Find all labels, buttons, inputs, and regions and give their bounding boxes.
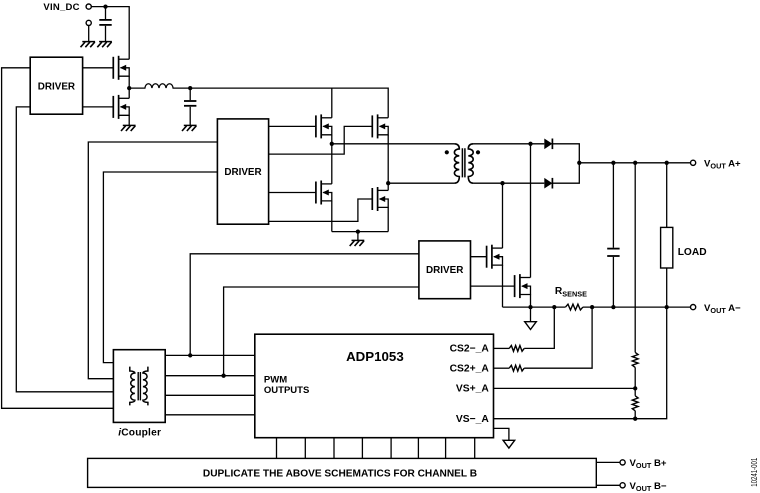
iCoupler transformer core <box>138 372 140 400</box>
junction secondary top <box>528 142 532 146</box>
wire A- rail right <box>583 306 691 308</box>
wire bridge bottom rail <box>332 231 388 233</box>
svg-text:DRIVER: DRIVER <box>426 265 463 276</box>
wire VS- to ADP <box>494 418 636 420</box>
junction VS divider top <box>633 161 637 165</box>
resistor RSENSE <box>566 304 583 310</box>
wire PWM2 iCoupler to ADP <box>165 375 255 377</box>
transistor M4 <box>372 114 388 138</box>
wire U1 upper input to iCoupler <box>2 68 114 409</box>
wire rail to ground <box>357 232 359 240</box>
channel B box <box>88 458 597 487</box>
iCoupler transformer left winding <box>130 367 135 406</box>
svg-text:LOAD: LOAD <box>678 247 707 258</box>
ground below Q2 <box>121 125 136 131</box>
wire VS- to A- rail <box>635 307 667 419</box>
wire R3 to VS+ node <box>634 367 636 395</box>
junction C4 top <box>611 161 615 165</box>
wire U2 to M6 gate <box>269 199 373 221</box>
transistor M6 <box>372 187 388 211</box>
wire M8 source to A- rail <box>530 295 532 308</box>
junction VIN/C1 <box>103 4 107 8</box>
ground below bridge <box>350 240 365 246</box>
wire U2 to M5 gate <box>269 192 316 194</box>
iCoupler transformer right winding <box>143 367 148 406</box>
wire U2 lower input to iCoupler <box>103 172 217 363</box>
transistor Q2 <box>113 95 129 119</box>
svg-text:DUPLICATE THE ABOVE SCHEMATICS: DUPLICATE THE ABOVE SCHEMATICS FOR CHANN… <box>203 469 477 480</box>
wire CS2- tap down <box>524 307 554 348</box>
wire terminal to ground <box>88 26 90 42</box>
wire load top lead <box>666 163 668 228</box>
capacitor C2 leads <box>189 88 191 125</box>
wire A- rail left <box>503 306 566 308</box>
wire U2 to M3 gate <box>269 125 316 127</box>
wire node B to primary <box>388 182 454 184</box>
capacitor C1 <box>99 20 111 25</box>
wire U1 to Q2 gate <box>83 106 114 108</box>
terminal VOUT B+ <box>620 460 625 465</box>
wire load bottom lead <box>666 268 668 307</box>
transistor M5 <box>316 181 332 205</box>
wire A+ to divider <box>634 163 636 353</box>
capacitor C2 <box>184 101 196 106</box>
wire D2 to output junction <box>552 163 579 183</box>
wire CS2+ tap down <box>524 307 592 368</box>
svg-text:VS+_A: VS+_A <box>456 384 489 395</box>
wire A+ rail <box>579 162 690 164</box>
wire M5 source to bottom rail <box>331 201 333 232</box>
wire PWM2 riser to U3 <box>224 287 419 376</box>
wire D1 to output junction <box>552 144 579 163</box>
wire secondary top <box>473 143 544 145</box>
junction VS- <box>633 417 637 421</box>
terminal VIN_DC <box>86 4 91 9</box>
junction secondary bottom <box>500 181 504 185</box>
svg-text:CS2+_A: CS2+_A <box>450 363 490 374</box>
T1 secondary phase dot <box>476 150 480 154</box>
T1 primary phase dot <box>445 150 449 154</box>
resistor R1 CS2- <box>509 346 524 352</box>
signal ground ADP1053 <box>503 440 515 448</box>
capacitor C1 leads <box>105 7 107 42</box>
driver U2 box <box>217 119 268 224</box>
wire PWM1 iCoupler to ADP <box>165 354 255 356</box>
wire ADP ground <box>494 428 509 440</box>
wire M3 drain tap <box>331 88 333 118</box>
wire M3 source / M5 drain <box>331 135 333 184</box>
junction load top <box>665 161 669 165</box>
ground below C2 <box>182 125 197 131</box>
diode D2 <box>544 178 552 189</box>
wire U1 to Q1 gate <box>83 67 114 69</box>
junction CS2- tap <box>552 305 556 309</box>
svg-text:VS−_A: VS−_A <box>456 414 489 425</box>
transformer T1 core <box>462 148 465 177</box>
junction PWM2 riser <box>221 374 225 378</box>
wire PWM3 iCoupler to ADP <box>165 394 255 396</box>
wire M4 source / M6 drain <box>387 135 389 191</box>
wire secondary bottom <box>473 182 544 184</box>
transformer T1 secondary winding <box>468 144 473 183</box>
driver U1 box <box>30 57 82 114</box>
resistor R3 divider top <box>632 352 638 367</box>
wire VS+ to ADP <box>494 387 636 389</box>
resistor R4 divider bottom <box>632 396 638 411</box>
junction VS+ <box>633 386 637 390</box>
svg-text:ADP1053: ADP1053 <box>346 349 404 364</box>
junction C4 bottom <box>611 305 615 309</box>
ground below VIN return terminal <box>81 42 96 48</box>
terminal VOUT B- <box>620 483 625 488</box>
wire U1 lower input to iCoupler <box>16 107 113 392</box>
terminal VIN return <box>86 20 91 25</box>
junction bridge ground tap <box>356 229 360 233</box>
transistor M3 <box>316 114 332 138</box>
wire VIN_DC to Q1 drain <box>91 7 129 60</box>
junction M8 source <box>528 305 532 309</box>
wire U3 to M8 gate <box>471 285 515 287</box>
svg-text:10241-001: 10241-001 <box>749 458 759 487</box>
node A junction <box>330 142 334 146</box>
wire R1 to ADP <box>494 347 510 349</box>
wire R2 to ADP <box>494 367 510 369</box>
node B junction <box>386 181 390 185</box>
wire node A to primary <box>332 143 454 145</box>
inductor L1 <box>129 84 190 88</box>
wire U3 to M7 gate <box>471 256 487 258</box>
svg-text:VIN_DC: VIN_DC <box>43 2 79 13</box>
svg-text:CS2−_A: CS2−_A <box>450 344 490 355</box>
svg-text:iCoupler: iCoupler <box>118 427 161 438</box>
capacitor C4 <box>607 249 619 256</box>
iCoupler box <box>113 350 165 423</box>
wire Q2 source to ground <box>128 115 130 125</box>
wire rail ground tap <box>530 307 532 322</box>
signal ground below rail <box>525 322 537 330</box>
wire M7 source to A- rail <box>502 265 504 307</box>
wire M6 source to bottom rail <box>387 207 389 231</box>
transformer T1 primary winding <box>454 144 459 183</box>
ADP1053 bottom pin stubs <box>277 438 475 459</box>
svg-text:DRIVER: DRIVER <box>224 167 261 178</box>
transistor Q1 <box>113 56 129 80</box>
wire secondary bottom to M7 drain <box>502 183 504 248</box>
junction CS2+ tap <box>590 305 594 309</box>
wire VOUT B- <box>596 484 620 486</box>
terminal VOUT A+ <box>691 160 696 165</box>
load resistor box <box>661 227 673 268</box>
ground below C1 <box>97 42 112 48</box>
wire PWM1 riser to U3 <box>190 254 419 356</box>
svg-text:DRIVER: DRIVER <box>38 81 75 92</box>
wire secondary top to M8 drain <box>530 144 532 278</box>
junction L1/C2 <box>188 86 192 90</box>
junction buck switch node <box>127 86 131 90</box>
wire rail to bridge <box>190 88 388 118</box>
terminal VOUT A- <box>691 305 696 310</box>
junction PWM1 riser <box>188 353 192 357</box>
transistor M7 <box>487 245 503 269</box>
wire U2 upper input to iCoupler <box>88 142 217 379</box>
wire PWM4 iCoupler to ADP <box>165 414 255 416</box>
controller ADP1053 box <box>255 334 494 438</box>
wire VOUT B+ <box>596 461 620 463</box>
resistor R2 CS2+ <box>509 365 524 371</box>
transistor M8 <box>515 274 531 298</box>
wire U2 to M4 gate <box>269 126 373 154</box>
driver U3 box <box>419 241 471 299</box>
diode D1 <box>544 139 552 150</box>
capacitor C4 leads <box>612 163 614 307</box>
wire Q1 source to Q2 drain <box>128 76 130 98</box>
junction rectifier output <box>577 161 581 165</box>
junction load bottom <box>665 305 669 309</box>
wire R4 to VS- node <box>634 411 636 419</box>
